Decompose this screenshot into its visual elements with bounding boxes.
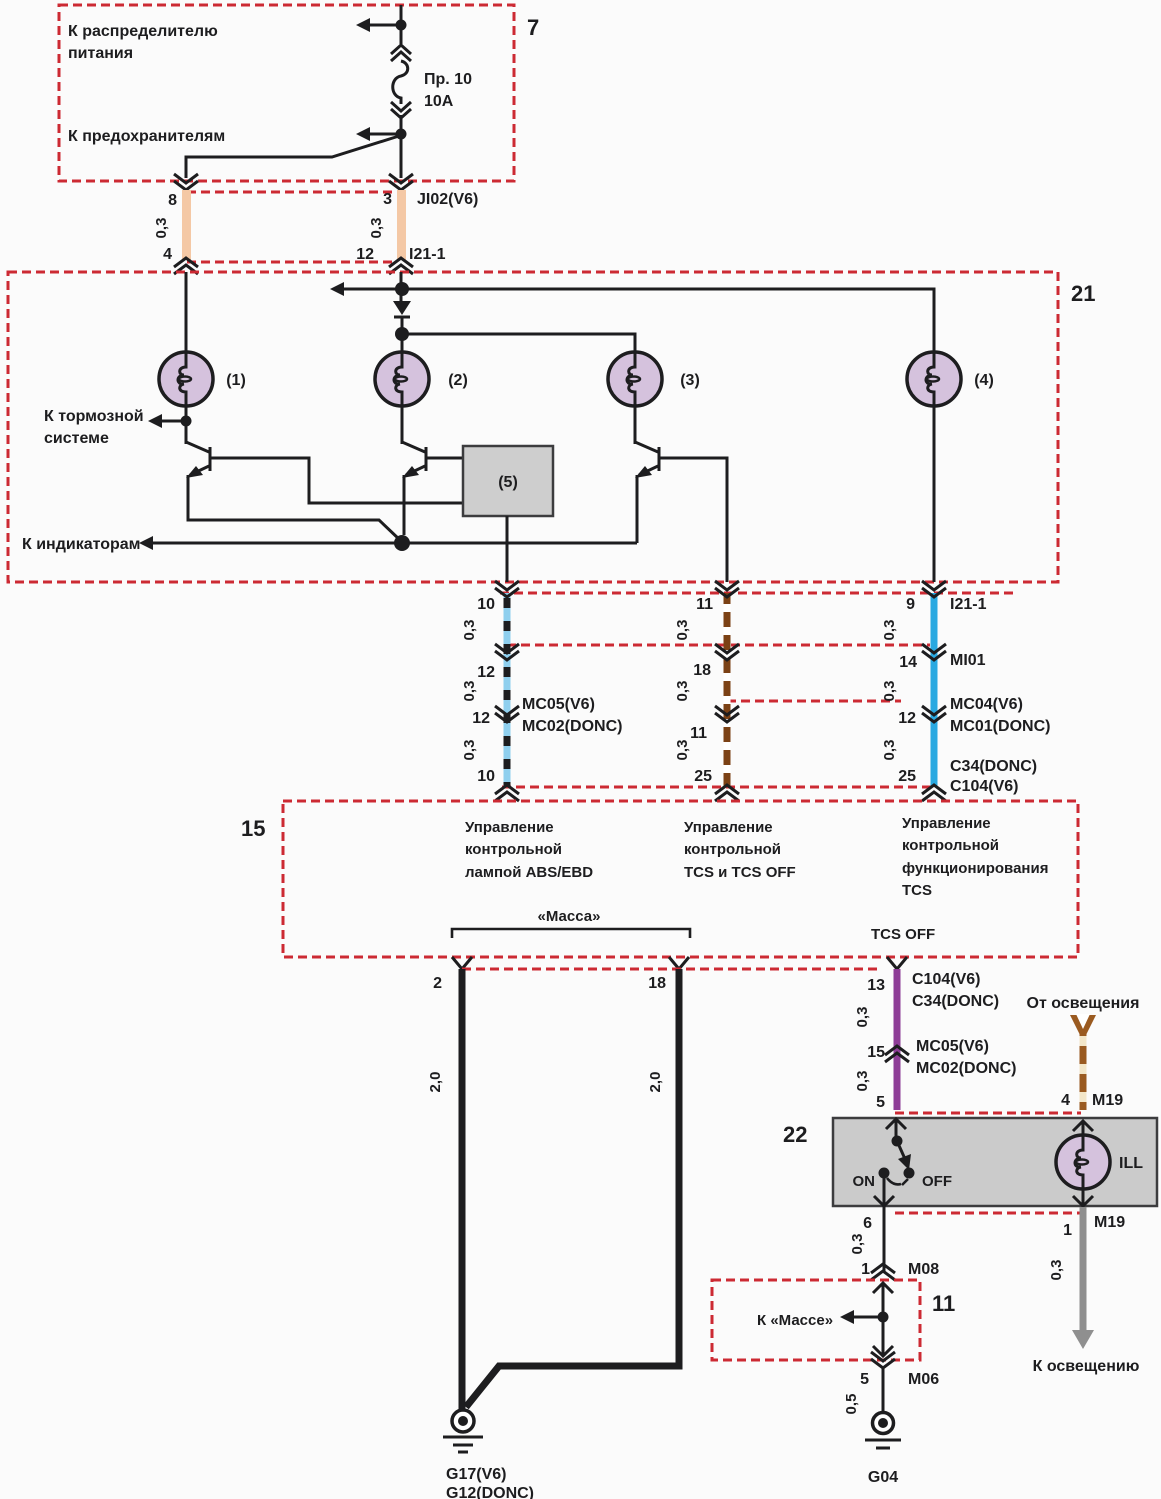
wire: illumination feed (brown) arrow in (1070, 1015, 1096, 1041)
svg-text:MC04(V6): MC04(V6) (950, 696, 1023, 713)
wire: Q1 emitter to node G (188, 475, 401, 541)
svg-text:контрольной: контрольной (465, 841, 562, 858)
connector JI02 pin8 chevron (174, 174, 198, 190)
svg-text:0,3: 0,3 (674, 740, 691, 761)
svg-text:0,3: 0,3 (674, 681, 691, 702)
svg-text:MC01(DONC): MC01(DONC) (950, 718, 1050, 735)
ground G17/G12 (452, 1410, 474, 1432)
instrument cluster box 21 dashed border (8, 272, 1058, 582)
svg-text:C104(V6): C104(V6) (950, 778, 1018, 795)
wire: TCS OFF switch feed (purple) (894, 969, 901, 1110)
svg-text:К освещению: К освещению (1033, 1358, 1140, 1375)
svg-text:13: 13 (867, 977, 885, 994)
svg-text:2,0: 2,0 (427, 1072, 444, 1093)
svg-text:G12(DONC): G12(DONC) (446, 1485, 534, 1499)
connector chevron below fuse (391, 102, 411, 118)
svg-text:4: 4 (163, 246, 172, 263)
wire: TCS function (solid cyan) (931, 593, 938, 787)
svg-text:G17(V6): G17(V6) (446, 1466, 506, 1483)
svg-text:7: 7 (527, 15, 539, 40)
unit (5) (463, 446, 553, 516)
svg-text:системе: системе (44, 430, 109, 447)
wire: ground lead pin18 (2,0 thick) (466, 969, 679, 1407)
wire: node D to lamp 3 (402, 334, 635, 352)
lamp (1) (159, 352, 213, 406)
svg-text:MC05(V6): MC05(V6) (916, 1038, 989, 1055)
svg-text:18: 18 (693, 662, 711, 679)
wire: arrow to Масса (848, 1316, 883, 1319)
svg-text:Пр. 10: Пр. 10 (424, 71, 472, 88)
wire: ground lead pin2 (2,0 thick) (459, 969, 466, 1409)
svg-text:(2): (2) (448, 372, 468, 389)
svg-text:0,3: 0,3 (881, 620, 898, 641)
svg-text:8: 8 (168, 192, 177, 209)
lamp (4) (907, 352, 961, 406)
wire: switch to pin 6 (883, 1178, 886, 1205)
svg-text:18: 18 (648, 975, 666, 992)
wire: ABS lamp control (lt blue/black) (504, 593, 511, 787)
wire: fuse output vertical (400, 115, 403, 178)
svg-text:11: 11 (932, 1291, 955, 1316)
connector M08 chevron (871, 1264, 895, 1280)
wire: Q2 emitter to node G (403, 475, 406, 535)
svg-text:I21-1: I21-1 (409, 246, 446, 263)
svg-text:M19: M19 (1092, 1092, 1123, 1109)
wire: TCS lamp control (brown/white) (724, 593, 731, 787)
connector MC05/MC02 chevron on purple wire (885, 1046, 909, 1062)
svg-text:контрольной: контрольной (902, 837, 999, 854)
transistor Q2 (402, 442, 425, 452)
wire: Q3 emitter to indicator bus (636, 475, 639, 543)
dashed line above box 22 (895, 1112, 1081, 1115)
connector C104 pin25 chevron right (922, 785, 946, 801)
fork TCS OFF pin 13 (887, 957, 907, 969)
connector JI02/I21-1 dashed outline (187, 191, 397, 194)
wire: M06 to ground (882, 1368, 885, 1411)
junction dot D (395, 327, 409, 341)
wire band pin3-12 (0,3 peach) (397, 190, 406, 260)
svg-text:5: 5 (860, 1371, 869, 1388)
svg-text:10А: 10А (424, 93, 454, 110)
svg-text:9: 9 (906, 596, 915, 613)
svg-text:M06: M06 (908, 1371, 939, 1388)
wire: arrow to fuses (364, 133, 401, 136)
wire: illumination out (gray) (1080, 1207, 1087, 1331)
fuse box 7 dashed border (59, 5, 514, 181)
connector I21-1 dashed outline (lower) (500, 592, 1013, 595)
svg-text:MC02(DONC): MC02(DONC) (522, 718, 622, 735)
connector I21-1 pin11 chevron (715, 581, 739, 597)
transistor Q3 (635, 442, 658, 452)
svg-text:0,3: 0,3 (1048, 1260, 1065, 1281)
svg-text:22: 22 (783, 1122, 807, 1147)
svg-text:TCS: TCS (902, 882, 932, 899)
switch S1 entry arrow (886, 1119, 906, 1129)
svg-text:JI02(V6): JI02(V6) (417, 191, 478, 208)
svg-text:К тормозной: К тормозной (44, 408, 144, 425)
connector I21-1 pin12 chevron (389, 258, 413, 274)
svg-text:0,3: 0,3 (854, 1071, 871, 1092)
connector dashed line below box15 (462, 968, 881, 971)
connector MI01 dashed line (507, 644, 930, 647)
svg-text:3: 3 (383, 191, 392, 208)
svg-text:2: 2 (433, 975, 442, 992)
svg-text:MI01: MI01 (950, 652, 986, 669)
svg-text:12: 12 (472, 710, 490, 727)
fuse Пр.10 10А (393, 61, 408, 104)
wire band pin8-4 (0,3 peach) (182, 190, 191, 260)
wire: arrow to brake system (156, 420, 186, 423)
wire: unit 5 output down to pin 10 (506, 516, 509, 582)
svg-text:25: 25 (694, 768, 712, 785)
svg-text:питания: питания (68, 45, 133, 62)
dashed line below box 22 (895, 1212, 1081, 1215)
svg-text:2,0: 2,0 (647, 1072, 664, 1093)
diode D1 (393, 301, 411, 315)
svg-text:C104(V6): C104(V6) (912, 971, 980, 988)
svg-text:11: 11 (690, 725, 707, 742)
svg-text:0,3: 0,3 (849, 1234, 866, 1255)
lamp (2) (375, 352, 429, 406)
svg-text:0,3: 0,3 (854, 1007, 871, 1028)
svg-text:0,3: 0,3 (674, 620, 691, 641)
svg-text:0,3: 0,3 (153, 218, 170, 239)
svg-text:(4): (4) (974, 372, 994, 389)
svg-text:0,3: 0,3 (881, 681, 898, 702)
connector M06 chevron (871, 1352, 895, 1368)
svg-text:10: 10 (477, 596, 495, 613)
wire: Q2 base to unit 5 (426, 457, 463, 460)
wire: lamp2 to Q2 (401, 406, 404, 444)
svg-text:I21-1: I21-1 (950, 596, 987, 613)
svg-text:12: 12 (477, 664, 495, 681)
connector I21-1 pin10 chevron (495, 581, 519, 597)
wire: lamp4 down to pin 9 (933, 406, 936, 582)
wire: pin4 down to lamp 1 (185, 272, 188, 352)
svg-text:0,3: 0,3 (368, 218, 385, 239)
connector I21-1 pin9 chevron (922, 581, 946, 597)
connector JI02 pin3 chevron (389, 174, 413, 190)
junction dot B (396, 129, 407, 140)
connector MC dashed line (727, 700, 901, 703)
wire: branch to pin 8 (186, 136, 399, 178)
svg-text:C34(DONC): C34(DONC) (950, 758, 1037, 775)
svg-text:0,3: 0,3 (461, 620, 478, 641)
svg-text:0,3: 0,3 (461, 681, 478, 702)
svg-text:ON: ON (853, 1173, 876, 1190)
svg-text:12: 12 (356, 246, 374, 263)
svg-text:12: 12 (898, 710, 916, 727)
svg-text:«Масса»: «Масса» (538, 908, 601, 925)
wire: Q1 base to unit 5 (210, 458, 463, 503)
svg-text:6: 6 (863, 1215, 872, 1232)
svg-text:TCS и TCS OFF: TCS и TCS OFF (684, 864, 796, 881)
bracket Масса (452, 929, 690, 938)
transistor Q1 (186, 442, 209, 452)
svg-text:5: 5 (876, 1094, 885, 1111)
connector C104 pin10 chevron (495, 785, 519, 801)
fork pin 18 (669, 957, 689, 969)
svg-text:Управление: Управление (684, 819, 773, 836)
svg-text:(5): (5) (498, 474, 518, 491)
svg-text:ILL: ILL (1119, 1155, 1143, 1172)
svg-text:14: 14 (899, 654, 917, 671)
svg-text:4: 4 (1061, 1092, 1070, 1109)
wire: pin12 down to node C (400, 272, 403, 301)
connector chevron above fuse (391, 45, 411, 61)
svg-text:1: 1 (1063, 1222, 1072, 1239)
svg-text:11: 11 (696, 596, 713, 613)
svg-text:К индикаторам: К индикаторам (22, 536, 141, 553)
svg-text:MC05(V6): MC05(V6) (522, 696, 595, 713)
wire: through box 11 (882, 1283, 885, 1356)
lamp (3) (608, 352, 662, 406)
svg-text:К «Массе»: К «Массе» (757, 1312, 833, 1329)
svg-text:лампой ABS/EBD: лампой ABS/EBD (465, 864, 593, 881)
svg-text:25: 25 (898, 768, 916, 785)
svg-text:TCS OFF: TCS OFF (871, 926, 935, 943)
wire: indicator bus with arrow (148, 542, 637, 545)
svg-text:0,3: 0,3 (881, 740, 898, 761)
wire: pin6 to M08 (883, 1206, 886, 1272)
junction dot C (395, 282, 409, 296)
svg-text:10: 10 (477, 768, 495, 785)
wire: supply vertical into fuse (400, 5, 403, 44)
switch unit box 22 (833, 1118, 1157, 1206)
wire: bus with left arrow at top of box21 (340, 289, 934, 352)
connector MI01 pin12 chevron (495, 644, 519, 660)
svg-text:Управление: Управление (902, 815, 991, 832)
fork pin 2 (452, 957, 472, 969)
connector MI01 pin18 chevron (715, 644, 739, 660)
svg-text:функционирования: функционирования (902, 860, 1048, 877)
ground G04 (873, 1413, 894, 1434)
junction dot E (181, 416, 192, 427)
connector MC05 pin12 chevron (495, 706, 519, 722)
svg-text:C34(DONC): C34(DONC) (912, 993, 999, 1010)
svg-text:(1): (1) (226, 372, 246, 389)
svg-text:К распределителю: К распределителю (68, 23, 218, 40)
svg-text:15: 15 (867, 1044, 885, 1061)
wire: Q3 base down to pin 11 (659, 458, 727, 582)
svg-text:От освещения: От освещения (1027, 995, 1140, 1012)
svg-text:(3): (3) (680, 372, 700, 389)
lamp ILL (1082, 1121, 1085, 1205)
svg-text:M19: M19 (1094, 1214, 1125, 1231)
wire: lamp3 to Q3 (634, 406, 637, 444)
svg-text:Управление: Управление (465, 819, 554, 836)
connector MC04 pin12 chevron (922, 706, 946, 722)
switch S1 (892, 1136, 903, 1147)
svg-text:контрольной: контрольной (684, 841, 781, 858)
svg-text:0,3: 0,3 (461, 740, 478, 761)
svg-text:15: 15 (241, 816, 265, 841)
svg-text:MC02(DONC): MC02(DONC) (916, 1060, 1016, 1077)
connector MC05 pin11 chevron (715, 706, 739, 722)
junction dot G (394, 535, 410, 551)
ABS control unit box 15 dashed border (283, 801, 1078, 957)
svg-text:0,5: 0,5 (843, 1394, 860, 1415)
svg-text:К предохранителям: К предохранителям (68, 128, 225, 145)
junction dot A (396, 20, 407, 31)
connector MI01 pin14 chevron (922, 644, 946, 660)
connector C104 pin25 chevron (715, 785, 739, 801)
svg-text:OFF: OFF (922, 1173, 952, 1190)
svg-text:G04: G04 (868, 1469, 898, 1486)
svg-text:M08: M08 (908, 1261, 939, 1278)
connector C34/C104 dashed line (502, 786, 937, 789)
junction dot H (878, 1312, 889, 1323)
wire: arrow to supply distributor (364, 24, 401, 27)
ground joint box 11 dashed border (712, 1280, 920, 1360)
svg-text:1: 1 (861, 1261, 870, 1278)
wire: lamp1 to node E (185, 406, 188, 444)
svg-text:21: 21 (1071, 281, 1095, 306)
connector I21-1 pin4 chevron (174, 258, 198, 274)
